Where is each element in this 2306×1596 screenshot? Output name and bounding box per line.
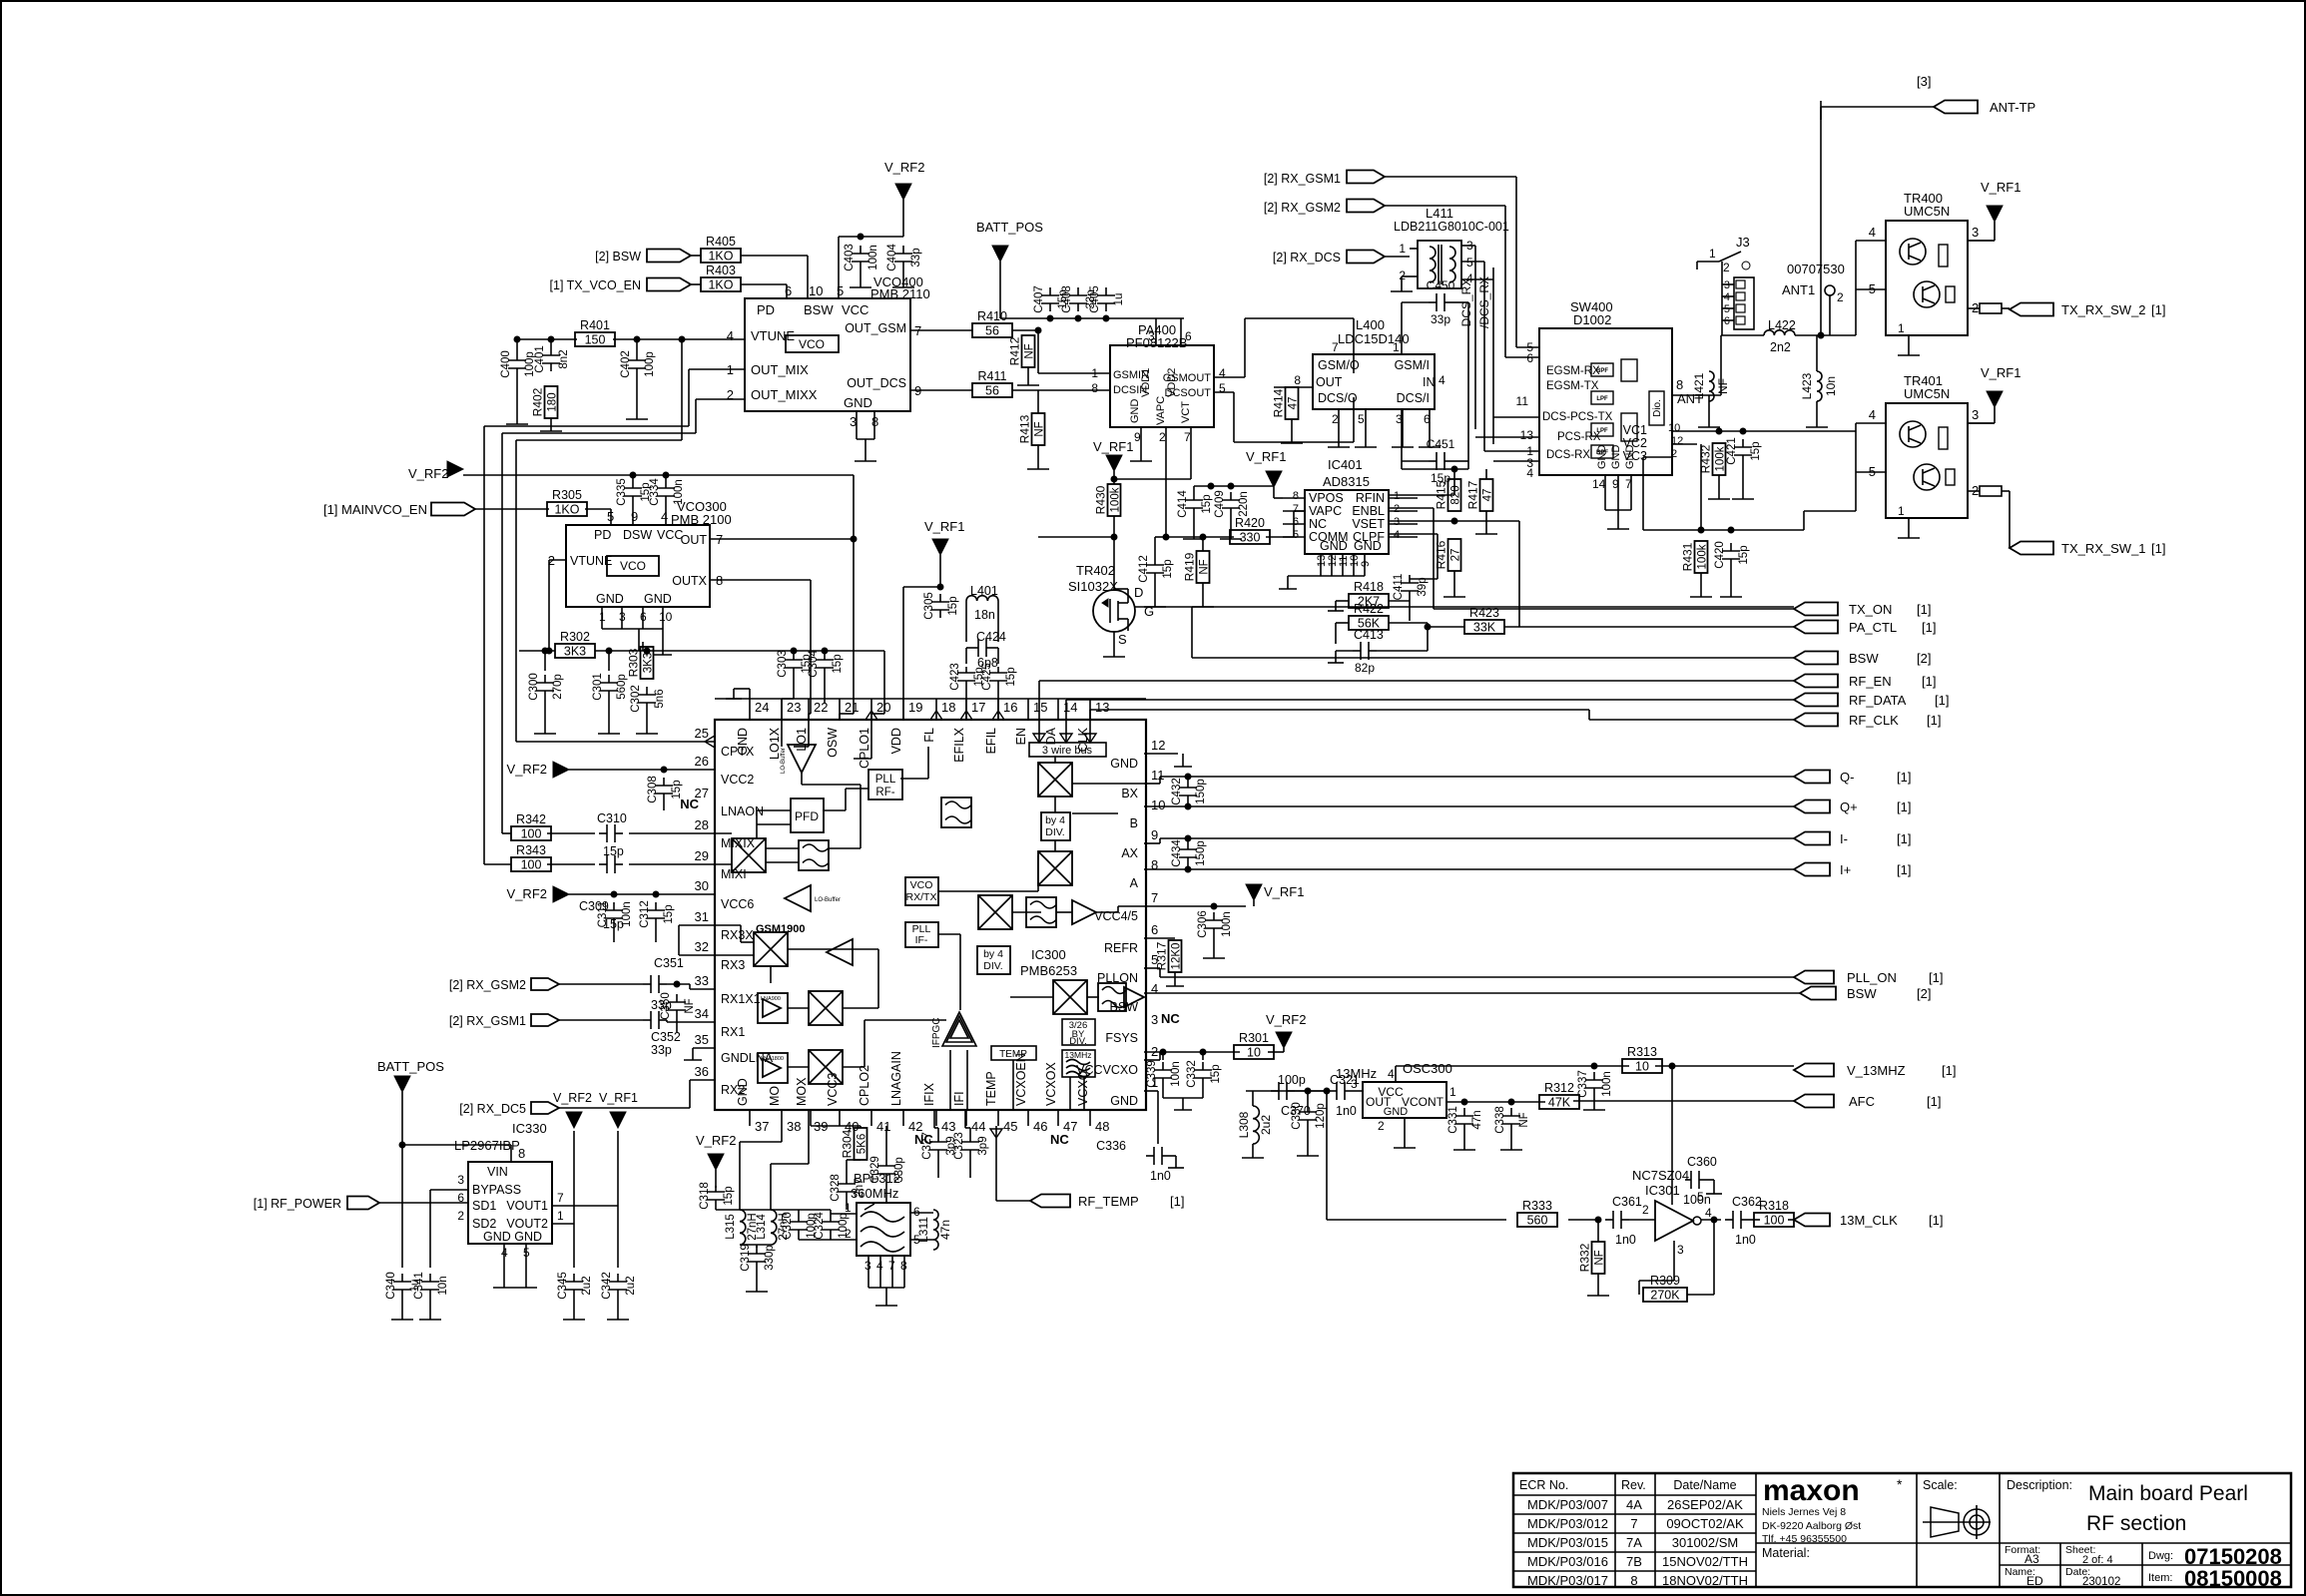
svg-text:1: 1	[1898, 321, 1905, 335]
svg-text:9: 9	[631, 509, 638, 524]
svg-text:C421: C421	[1726, 437, 1738, 465]
svg-text:7: 7	[1630, 1516, 1637, 1531]
svg-text:C402: C402	[620, 350, 632, 378]
svg-text:C335: C335	[616, 478, 628, 506]
svg-text:33p: 33p	[1431, 312, 1450, 326]
svg-text:R318: R318	[1759, 1199, 1789, 1213]
svg-text:RX3: RX3	[721, 958, 745, 972]
svg-text:31: 31	[695, 909, 709, 924]
svg-text:V_RF1: V_RF1	[1246, 449, 1286, 464]
svg-text:3: 3	[457, 1173, 464, 1187]
svg-text:DCS-RX: DCS-RX	[1546, 449, 1590, 461]
svg-text:4: 4	[1869, 225, 1876, 240]
svg-text:D: D	[1134, 585, 1143, 600]
svg-text:IC300: IC300	[1031, 947, 1066, 962]
svg-text:V_13MHZ: V_13MHZ	[1847, 1063, 1906, 1078]
svg-text:R432: R432	[1699, 444, 1713, 473]
svg-text:2: 2	[1159, 430, 1166, 444]
svg-text:[1]: [1]	[1917, 602, 1931, 617]
svg-text:330p: 330p	[764, 1245, 776, 1271]
svg-text:43: 43	[941, 1119, 955, 1134]
svg-text:L400: L400	[1356, 317, 1385, 332]
svg-text:13MHz: 13MHz	[1336, 1066, 1377, 1081]
svg-text:39p: 39p	[1417, 577, 1429, 596]
svg-text:*: *	[1897, 1476, 1903, 1492]
svg-text:15p: 15p	[947, 596, 959, 615]
svg-text:GND: GND	[1610, 445, 1622, 470]
svg-text:R403: R403	[706, 264, 736, 277]
svg-text:[1]: [1]	[1922, 674, 1936, 689]
svg-text:C432: C432	[1171, 778, 1183, 805]
svg-text:Dwg:: Dwg:	[2148, 1550, 2173, 1562]
svg-text:NC: NC	[1309, 517, 1327, 531]
svg-text:RF_CLK: RF_CLK	[1849, 713, 1899, 728]
svg-text:34: 34	[695, 1006, 709, 1021]
svg-text:BYPASS: BYPASS	[472, 1183, 521, 1197]
svg-text:C360: C360	[1687, 1155, 1717, 1169]
svg-text:1: 1	[557, 1209, 564, 1223]
svg-text:180: 180	[547, 392, 559, 411]
svg-text:4: 4	[1705, 1206, 1712, 1220]
svg-text:C305: C305	[923, 592, 935, 620]
svg-text:R420: R420	[1235, 516, 1265, 530]
svg-text:37: 37	[755, 1119, 769, 1134]
svg-text:GND GND: GND GND	[483, 1230, 542, 1244]
svg-text:DCS/I: DCS/I	[1397, 391, 1430, 405]
svg-text:C350: C350	[660, 992, 672, 1020]
svg-text:C412: C412	[1138, 555, 1150, 583]
svg-text:maxon: maxon	[1763, 1474, 1860, 1507]
svg-text:BATT_POS: BATT_POS	[976, 220, 1043, 235]
svg-text:R423: R423	[1469, 606, 1499, 620]
svg-text:GND: GND	[596, 592, 624, 606]
svg-text:19: 19	[908, 700, 922, 715]
svg-text:3p9: 3p9	[977, 1136, 989, 1155]
svg-text:TX_ON: TX_ON	[1849, 602, 1892, 617]
svg-text:L314: L314	[756, 1214, 768, 1240]
svg-text:10: 10	[1151, 798, 1165, 812]
svg-text:EFILX: EFILX	[952, 727, 966, 762]
svg-text:23: 23	[787, 700, 801, 715]
svg-text:R342: R342	[516, 812, 546, 826]
svg-text:[2] BSW: [2] BSW	[595, 250, 641, 264]
svg-text:C311: C311	[597, 901, 609, 928]
svg-text:VIN: VIN	[487, 1165, 508, 1179]
svg-text:C403: C403	[844, 244, 856, 271]
svg-text:C310: C310	[597, 811, 627, 825]
svg-text:VCC2: VCC2	[721, 773, 754, 787]
svg-text:C407: C407	[1033, 285, 1045, 313]
svg-text:R332: R332	[1578, 1243, 1592, 1272]
svg-text:2n7: 2n7	[854, 1178, 865, 1197]
svg-text:V_RF1: V_RF1	[1264, 884, 1304, 899]
svg-text:PF08122B: PF08122B	[1126, 335, 1187, 350]
svg-text:L411: L411	[1426, 206, 1453, 221]
svg-text:TX_RX_SW_2: TX_RX_SW_2	[2061, 302, 2146, 317]
svg-text:TX_RX_SW_1: TX_RX_SW_1	[2061, 541, 2146, 556]
svg-text:C413: C413	[1354, 628, 1384, 642]
svg-text:3: 3	[1677, 1243, 1684, 1257]
svg-text:NF: NF	[1034, 421, 1046, 436]
svg-text:C351: C351	[654, 956, 684, 970]
svg-text:EGSM-RX: EGSM-RX	[1546, 365, 1600, 377]
svg-text:5: 5	[1219, 381, 1226, 395]
svg-text:12K0: 12K0	[1171, 943, 1183, 970]
svg-text:ED: ED	[2026, 1574, 2043, 1588]
svg-text:4: 4	[727, 328, 734, 343]
svg-text:C404: C404	[886, 244, 898, 271]
svg-text:CPLO2: CPLO2	[858, 1065, 871, 1106]
svg-text:BSW: BSW	[1849, 651, 1879, 666]
svg-text:35: 35	[695, 1032, 709, 1047]
svg-text:4: 4	[1151, 981, 1158, 996]
svg-text:3K3: 3K3	[564, 645, 586, 659]
svg-text:18NOV02/TTH: 18NOV02/TTH	[1662, 1573, 1748, 1588]
svg-text:MDK/P03/012: MDK/P03/012	[1527, 1516, 1608, 1531]
svg-text:[1]: [1]	[1897, 770, 1911, 785]
svg-text:FL: FL	[922, 728, 936, 743]
svg-text:100n: 100n	[1170, 1061, 1182, 1087]
svg-text:I+: I+	[1840, 862, 1851, 877]
svg-text:VCC: VCC	[657, 528, 683, 542]
svg-text:R431: R431	[1681, 542, 1695, 571]
svg-text:1: 1	[1394, 490, 1400, 502]
svg-text:LNA1800: LNA1800	[761, 1056, 784, 1062]
svg-text:[1]: [1]	[1935, 693, 1949, 708]
svg-text:V_RF2: V_RF2	[408, 466, 448, 481]
svg-text:S: S	[1118, 632, 1127, 647]
svg-text:NF: NF	[684, 998, 696, 1013]
svg-text:R411: R411	[978, 369, 1007, 383]
svg-text:VCXOEN: VCXOEN	[1014, 1053, 1028, 1106]
svg-text:PLL_ON: PLL_ON	[1847, 970, 1897, 985]
svg-text:150: 150	[585, 333, 606, 347]
svg-text:[1]: [1]	[1927, 713, 1941, 728]
svg-text:1n0: 1n0	[1615, 1233, 1636, 1247]
svg-text:270K: 270K	[1650, 1289, 1680, 1303]
svg-text:15p: 15p	[1210, 1064, 1222, 1083]
svg-text:C450: C450	[1427, 278, 1455, 292]
svg-text:[3]: [3]	[1917, 74, 1931, 89]
svg-text:VOUT1: VOUT1	[506, 1199, 548, 1213]
svg-text:VCT: VCT	[1180, 401, 1192, 423]
svg-text:[1]: [1]	[2151, 302, 2165, 317]
svg-text:AX: AX	[1121, 846, 1138, 860]
svg-text:15p: 15p	[832, 654, 844, 673]
svg-text:100p: 100p	[644, 351, 656, 377]
svg-text:PMB 2110: PMB 2110	[870, 286, 930, 301]
svg-text:33K: 33K	[1473, 621, 1496, 635]
svg-text:4: 4	[1526, 466, 1533, 480]
svg-text:150p: 150p	[1195, 779, 1207, 804]
svg-text:C334: C334	[649, 478, 661, 506]
svg-text:A3: A3	[2024, 1552, 2039, 1566]
svg-text:TR402: TR402	[1076, 563, 1115, 578]
svg-text:NF: NF	[1518, 1112, 1530, 1127]
svg-text:C319: C319	[740, 1244, 752, 1272]
svg-text:11: 11	[1516, 394, 1529, 408]
svg-text:C318: C318	[699, 1182, 711, 1210]
svg-text:R413: R413	[1018, 414, 1032, 443]
svg-text:8: 8	[1676, 377, 1683, 392]
svg-text:GSMOUT: GSMOUT	[1163, 372, 1212, 384]
svg-text:18: 18	[941, 700, 955, 715]
svg-text:10: 10	[1247, 1046, 1261, 1060]
svg-text:C361: C361	[1612, 1195, 1642, 1209]
svg-text:[1] RF_POWER: [1] RF_POWER	[254, 1197, 341, 1211]
svg-text:11: 11	[1151, 768, 1165, 783]
svg-text:GSM1900: GSM1900	[756, 923, 806, 935]
svg-text:MDK/P03/015: MDK/P03/015	[1527, 1535, 1608, 1550]
svg-text:MDK/P03/007: MDK/P03/007	[1527, 1497, 1608, 1512]
svg-text:47K: 47K	[1548, 1096, 1571, 1110]
svg-text:33: 33	[695, 973, 709, 988]
svg-text:L422: L422	[1768, 318, 1796, 332]
svg-text:[1]: [1]	[1942, 1063, 1956, 1078]
svg-text:ENBL: ENBL	[1352, 504, 1385, 518]
svg-text:15p: 15p	[603, 844, 624, 858]
svg-text:REFR: REFR	[1104, 941, 1138, 955]
svg-text:R312: R312	[1544, 1081, 1574, 1095]
svg-text:LPF: LPF	[1596, 396, 1608, 402]
svg-text:18n: 18n	[974, 608, 995, 622]
svg-text:IC301: IC301	[1645, 1183, 1680, 1198]
svg-text:8: 8	[1091, 381, 1098, 395]
svg-text:BX: BX	[1121, 787, 1138, 800]
svg-text:R313: R313	[1627, 1045, 1657, 1059]
svg-text:IFPGC: IFPGC	[931, 1017, 942, 1048]
svg-text:C338: C338	[1494, 1106, 1506, 1134]
svg-text:VCO: VCO	[799, 337, 825, 351]
svg-text:2: 2	[845, 1227, 852, 1241]
svg-text:IFI: IFI	[952, 1091, 966, 1106]
svg-text:1: 1	[1393, 340, 1400, 354]
svg-text:8: 8	[1151, 857, 1158, 872]
svg-text:[2]: [2]	[1917, 986, 1931, 1001]
svg-text:BSW: BSW	[804, 302, 834, 317]
svg-text:45: 45	[1003, 1119, 1017, 1134]
svg-text:FSYS: FSYS	[1105, 1031, 1138, 1045]
svg-text:08150008: 08150008	[2184, 1566, 2282, 1591]
svg-text:PA_CTL: PA_CTL	[1849, 620, 1897, 635]
svg-text:R418: R418	[1354, 580, 1384, 594]
svg-text:330p: 330p	[893, 1157, 905, 1183]
svg-text:14: 14	[1592, 477, 1606, 491]
svg-text:38: 38	[787, 1119, 801, 1134]
svg-text:TEMP: TEMP	[999, 1049, 1027, 1060]
svg-text:OUT: OUT	[681, 533, 708, 547]
svg-text:82p: 82p	[1355, 661, 1375, 675]
svg-text:3: 3	[1151, 1012, 1158, 1027]
svg-text:C301: C301	[592, 673, 604, 701]
svg-text:R303: R303	[627, 648, 641, 677]
svg-text:GND: GND	[1110, 1094, 1138, 1108]
svg-text:CPTX: CPTX	[721, 745, 755, 759]
svg-text:C320: C320	[782, 1212, 794, 1240]
svg-text:R414: R414	[1272, 388, 1286, 417]
svg-text:AFC: AFC	[1849, 1094, 1875, 1109]
svg-text:56: 56	[985, 384, 999, 398]
svg-text:UMC5N: UMC5N	[1904, 204, 1950, 219]
svg-text:10n: 10n	[1824, 376, 1838, 396]
svg-text:C323: C323	[953, 1132, 965, 1160]
svg-text:C324: C324	[814, 1212, 826, 1240]
svg-text:OUTX: OUTX	[672, 574, 707, 588]
svg-text:R402: R402	[531, 387, 545, 416]
svg-text:6: 6	[913, 1205, 920, 1219]
svg-text:NF: NF	[1024, 343, 1036, 358]
svg-text:150p: 150p	[1195, 840, 1207, 866]
svg-text:9: 9	[1134, 430, 1141, 444]
svg-text:J3: J3	[1736, 235, 1750, 250]
svg-text:00707530: 00707530	[1787, 262, 1845, 276]
svg-text:by 4: by 4	[983, 948, 1003, 960]
svg-text:R422: R422	[1354, 602, 1384, 616]
svg-text:DSW: DSW	[623, 528, 652, 542]
svg-text:C306: C306	[1197, 910, 1209, 938]
svg-text:3: 3	[1394, 516, 1400, 528]
svg-text:OSW: OSW	[826, 728, 840, 758]
svg-text:RFIN: RFIN	[1356, 491, 1385, 505]
svg-text:13MHz: 13MHz	[1065, 1050, 1092, 1060]
svg-text:GSM/O: GSM/O	[1318, 358, 1360, 372]
svg-text:CPLO1: CPLO1	[858, 728, 871, 769]
svg-text:26: 26	[695, 754, 709, 769]
svg-text:100k: 100k	[1110, 487, 1122, 512]
svg-text:IF-: IF-	[915, 934, 928, 946]
svg-text:47n: 47n	[1471, 1110, 1483, 1129]
svg-text:2: 2	[1723, 261, 1730, 274]
svg-text:PMB 2100: PMB 2100	[671, 512, 732, 527]
svg-text:21: 21	[845, 700, 859, 715]
svg-text:1u: 1u	[1113, 293, 1125, 306]
svg-text:EGSM-TX: EGSM-TX	[1546, 380, 1599, 392]
svg-text:C304: C304	[808, 650, 820, 678]
svg-text:NF: NF	[1594, 1250, 1606, 1265]
svg-text:15p: 15p	[723, 1186, 735, 1205]
svg-text:2: 2	[1332, 412, 1339, 426]
svg-text:48: 48	[1095, 1119, 1109, 1134]
svg-text:[2] RX_DC5: [2] RX_DC5	[459, 1102, 526, 1116]
svg-text:LDB211G8010C-001: LDB211G8010C-001	[1394, 220, 1509, 234]
svg-text:RF_EN: RF_EN	[1849, 674, 1892, 689]
svg-text:30: 30	[695, 878, 709, 893]
svg-text:R302: R302	[560, 630, 590, 644]
svg-text:V_RF1: V_RF1	[599, 1091, 638, 1105]
svg-text:[2] RX_GSM2: [2] RX_GSM2	[449, 978, 526, 992]
svg-text:IFIX: IFIX	[922, 1082, 936, 1106]
svg-text:PCS-RX: PCS-RX	[1557, 431, 1601, 443]
svg-text:09OCT02/AK: 09OCT02/AK	[1666, 1516, 1744, 1531]
svg-text:C308: C308	[647, 776, 659, 803]
svg-text:V_RF1: V_RF1	[1981, 365, 2020, 380]
svg-text:OUT_MIXX: OUT_MIXX	[751, 387, 818, 402]
svg-text:8: 8	[1630, 1573, 1637, 1588]
svg-text:MDK/P03/017: MDK/P03/017	[1527, 1573, 1608, 1588]
svg-text:2: 2	[1394, 503, 1400, 515]
svg-text:C408: C408	[1061, 285, 1073, 313]
svg-text:NF: NF	[1199, 559, 1211, 574]
svg-text:R317: R317	[1155, 941, 1169, 970]
svg-text:100n: 100n	[621, 901, 633, 927]
svg-text:C414: C414	[1177, 490, 1189, 518]
svg-text:[1]: [1]	[1929, 970, 1943, 985]
svg-text:VOUT2: VOUT2	[506, 1217, 548, 1231]
svg-text:Niels Jernes Vej 8: Niels Jernes Vej 8	[1762, 1506, 1846, 1518]
svg-text:[1]: [1]	[1922, 620, 1936, 635]
svg-text:LO-Buffer: LO-Buffer	[781, 748, 787, 774]
svg-text:36: 36	[695, 1064, 709, 1079]
svg-text:[2] RX_DCS: [2] RX_DCS	[1273, 251, 1341, 265]
svg-text:C411: C411	[1393, 574, 1405, 601]
svg-text:MDK/P03/016: MDK/P03/016	[1527, 1554, 1608, 1569]
svg-text:[2] RX_GSM1: [2] RX_GSM1	[449, 1014, 526, 1028]
svg-text:2: 2	[1671, 448, 1677, 460]
svg-text:VCO: VCO	[620, 559, 646, 573]
svg-text:R343: R343	[516, 843, 546, 857]
svg-text:VCC6: VCC6	[721, 897, 754, 911]
svg-text:1KO: 1KO	[554, 503, 579, 517]
svg-text:8: 8	[1293, 490, 1299, 502]
svg-text:VCC4/5: VCC4/5	[1094, 909, 1138, 923]
svg-text:GND: GND	[1384, 1106, 1409, 1118]
svg-text:28: 28	[695, 817, 709, 832]
svg-text:15NOV02/TTH: 15NOV02/TTH	[1662, 1554, 1748, 1569]
svg-text:4: 4	[1466, 271, 1473, 285]
svg-text:1n0: 1n0	[1150, 1169, 1171, 1183]
svg-text:V_RF2: V_RF2	[507, 762, 547, 777]
svg-text:14: 14	[1063, 700, 1077, 715]
svg-text:GND: GND	[1354, 539, 1382, 553]
svg-text:26SEP02/AK: 26SEP02/AK	[1667, 1497, 1743, 1512]
svg-text:LO1: LO1	[795, 728, 809, 752]
svg-text:SI1032X: SI1032X	[1068, 579, 1118, 594]
svg-text:GND: GND	[844, 395, 872, 410]
svg-text:7: 7	[1151, 890, 1158, 905]
svg-text:GND: GND	[644, 592, 672, 606]
svg-text:SD2: SD2	[472, 1217, 496, 1231]
svg-text:8n2: 8n2	[558, 349, 570, 368]
svg-text:OUT_GSM: OUT_GSM	[845, 321, 906, 335]
svg-text:[2] RX_GSM2: [2] RX_GSM2	[1264, 201, 1341, 215]
svg-text:2: 2	[1642, 1203, 1649, 1217]
svg-text:C330: C330	[1291, 1102, 1303, 1130]
svg-text:4: 4	[1724, 291, 1730, 303]
svg-text:VCC: VCC	[842, 302, 868, 317]
svg-text:GND: GND	[1624, 445, 1636, 470]
svg-text:RX1: RX1	[721, 1025, 745, 1039]
svg-text:220n: 220n	[1238, 491, 1250, 517]
svg-text:7B: 7B	[1626, 1554, 1642, 1569]
svg-text:1: 1	[845, 1201, 852, 1215]
svg-text:1: 1	[1898, 504, 1905, 518]
svg-text:PLL: PLL	[875, 774, 896, 786]
svg-text:IC330: IC330	[512, 1121, 547, 1136]
svg-text:1KO: 1KO	[708, 250, 733, 264]
svg-text:5: 5	[837, 283, 844, 298]
svg-text:NC7SZ04: NC7SZ04	[1632, 1168, 1689, 1183]
svg-text:2: 2	[1399, 268, 1406, 282]
svg-text:2: 2	[1837, 290, 1844, 304]
svg-text:V_RF1: V_RF1	[1981, 180, 2020, 195]
svg-text:[2] RX_GSM1: [2] RX_GSM1	[1264, 172, 1341, 186]
svg-text:4: 4	[1394, 529, 1400, 541]
svg-text:EFIL: EFIL	[984, 728, 998, 754]
svg-text:RF section: RF section	[2086, 1512, 2186, 1535]
svg-text:7: 7	[1332, 340, 1339, 354]
svg-text:TEMP: TEMP	[984, 1071, 998, 1106]
svg-text:100n: 100n	[867, 245, 879, 270]
